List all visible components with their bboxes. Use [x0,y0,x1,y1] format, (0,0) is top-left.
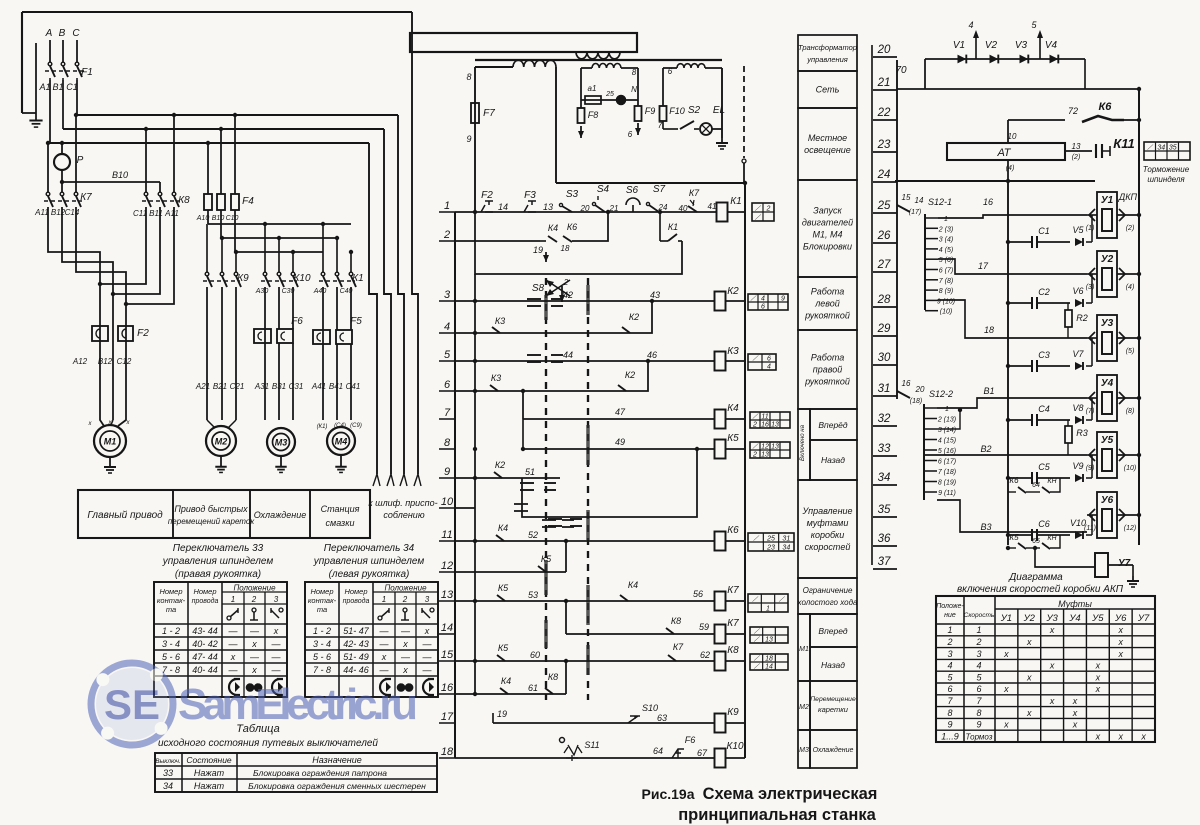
svg-text:1: 1 [947,625,952,635]
svg-text:13: 13 [1072,142,1081,151]
svg-text:(10): (10) [940,309,952,316]
svg-text:КН: КН [1047,535,1057,542]
svg-text:рукояткой: рукояткой [804,311,850,321]
svg-text:Главный привод: Главный привод [87,510,163,521]
svg-text:3 - 4: 3 - 4 [313,639,331,649]
svg-text:К1: К1 [730,196,741,207]
svg-text:В1: В1 [983,386,994,396]
svg-text:Выключ.: Выключ. [155,758,181,765]
svg-text:53: 53 [528,590,538,600]
svg-text:19: 19 [533,245,543,255]
svg-text:левой: левой [814,299,840,309]
svg-text:К11: К11 [1113,136,1135,151]
svg-text:F9: F9 [645,106,656,116]
svg-text:V8: V8 [1072,403,1083,413]
svg-text:С14: С14 [65,208,80,217]
svg-text:х: х [1003,649,1009,659]
svg-text:V6: V6 [1072,286,1083,296]
svg-text:В21: В21 [213,382,227,391]
svg-text:каретки: каретки [818,705,849,714]
svg-text:х: х [1026,637,1032,647]
svg-text:С3: С3 [1038,350,1050,360]
svg-text:К6: К6 [567,222,577,232]
svg-text:—: — [271,639,282,649]
svg-text:1: 1 [976,625,981,635]
svg-text:N: N [631,85,637,94]
svg-text:2: 2 [251,595,257,604]
svg-text:59: 59 [699,622,709,632]
svg-text:У1: У1 [1101,195,1114,206]
svg-text:25: 25 [877,200,891,212]
svg-text:S2: S2 [688,105,701,116]
svg-text:С1: С1 [66,82,78,92]
svg-text:Местное: Местное [808,133,847,143]
svg-text:К6: К6 [727,525,739,536]
svg-text:42- 43: 42- 43 [343,639,369,649]
svg-text:М1, М4: М1, М4 [812,230,842,240]
svg-text:V2: V2 [985,40,998,51]
svg-text:Положение: Положение [384,584,427,593]
svg-text:С4: С4 [1038,404,1050,414]
svg-text:(8): (8) [1126,408,1135,415]
svg-text:51- 49: 51- 49 [343,652,369,662]
svg-text:40- 42: 40- 42 [192,639,218,649]
svg-text:Охлаждение: Охлаждение [254,510,307,520]
svg-text:5: 5 [444,349,451,361]
svg-text:1: 1 [382,595,386,604]
svg-text:S6: S6 [626,185,639,196]
svg-text:—: — [422,652,433,662]
svg-text:Рис.19а: Рис.19а [642,786,695,802]
svg-text:40- 44: 40- 44 [192,665,218,675]
svg-text:7 (18): 7 (18) [938,469,956,476]
svg-text:42: 42 [563,290,573,300]
svg-text:К1: К1 [668,222,678,232]
svg-text:Положе-: Положе- [936,603,964,610]
svg-text:2: 2 [752,452,757,459]
svg-text:—: — [400,626,411,636]
svg-text:14: 14 [765,664,773,671]
svg-text:SamElectric.ru: SamElectric.ru [178,680,418,729]
svg-text:34: 34 [782,545,790,552]
svg-text:22: 22 [877,107,891,119]
svg-text:S11: S11 [584,740,599,750]
svg-text:F7: F7 [483,108,495,119]
svg-text:34: 34 [1157,145,1165,152]
svg-text:4: 4 [761,296,765,303]
svg-text:12: 12 [441,560,453,572]
svg-text:управления: управления [806,55,848,64]
svg-text:А41: А41 [311,382,326,391]
svg-text:7 (8): 7 (8) [939,278,953,285]
svg-text:EL: EL [713,105,725,116]
svg-text:х: х [251,665,257,675]
svg-text:7: 7 [658,121,663,130]
svg-text:х: х [402,665,408,675]
svg-text:х: х [251,639,257,649]
svg-text:У3: У3 [1045,613,1058,624]
svg-text:6: 6 [947,684,952,694]
svg-text:8: 8 [947,708,952,718]
svg-text:Блокировка ограждения патрона: Блокировка ограждения патрона [253,768,387,778]
svg-text:2 (3): 2 (3) [938,226,953,233]
svg-text:F5: F5 [350,316,362,327]
svg-text:11: 11 [761,414,768,421]
svg-text:36: 36 [878,533,891,545]
svg-text:Переключатель 33: Переключатель 33 [173,543,264,554]
svg-text:2: 2 [752,422,757,429]
svg-text:31: 31 [878,383,891,395]
svg-text:60: 60 [530,650,540,660]
svg-text:—: — [228,626,239,636]
svg-text:х: х [1026,672,1032,682]
svg-text:51: 51 [525,467,535,477]
svg-text:(левая рукоятка): (левая рукоятка) [329,569,410,580]
svg-text:6: 6 [628,130,633,139]
svg-text:(4): (4) [1006,165,1015,172]
svg-text:А12: А12 [72,357,88,366]
svg-text:5 (16): 5 (16) [938,448,956,455]
svg-text:3 - 4: 3 - 4 [162,639,180,649]
svg-text:С21: С21 [230,382,245,391]
svg-text:8: 8 [976,708,981,718]
svg-text:Номер: Номер [344,587,367,596]
svg-text:К8: К8 [178,195,190,206]
svg-text:К4: К4 [628,580,638,590]
svg-text:1: 1 [444,200,450,212]
svg-text:28: 28 [877,294,891,306]
svg-text:Работа: Работа [811,353,844,363]
svg-text:—: — [228,639,239,649]
svg-text:х: х [1049,696,1055,706]
svg-text:11: 11 [441,529,452,541]
svg-text:S7: S7 [653,184,666,195]
svg-text:62: 62 [700,650,710,660]
svg-text:25: 25 [605,91,614,98]
svg-text:У3: У3 [1101,318,1114,329]
svg-text:Вперед: Вперед [818,626,847,636]
svg-text:43: 43 [650,290,660,300]
svg-text:освещение: освещение [804,145,851,155]
svg-text:Блокировки: Блокировки [803,242,852,252]
svg-text:х: х [1003,720,1009,730]
svg-text:25: 25 [766,536,775,543]
svg-text:13: 13 [771,444,779,451]
svg-text:3: 3 [976,649,981,659]
svg-text:67: 67 [697,748,708,758]
svg-text:8: 8 [632,68,637,77]
svg-text:7 - 8: 7 - 8 [313,665,331,675]
svg-text:М2: М2 [799,704,809,711]
svg-text:72: 72 [1068,106,1078,116]
svg-text:40: 40 [679,204,688,213]
svg-text:30: 30 [878,352,891,364]
svg-text:9: 9 [444,466,450,478]
svg-text:S12-2: S12-2 [929,389,953,399]
svg-text:35: 35 [1169,145,1177,152]
svg-text:9: 9 [976,720,981,730]
svg-text:34: 34 [163,781,173,791]
svg-text:контак-: контак- [308,596,337,605]
svg-text:исходного состояния путевых вы: исходного состояния путевых выключателей [158,738,378,749]
svg-text:В10: В10 [112,170,128,180]
svg-text:6: 6 [761,304,765,311]
svg-text:—: — [379,665,390,675]
svg-text:А11: А11 [34,208,49,217]
svg-text:Назначение: Назначение [312,755,361,765]
svg-text:(К1): (К1) [317,424,328,430]
svg-text:Диаграмма: Диаграмма [1008,572,1063,583]
svg-text:—: — [271,665,282,675]
svg-text:3: 3 [425,595,430,604]
svg-text:У2: У2 [1023,613,1036,624]
svg-text:К8: К8 [548,672,558,682]
svg-text:У1: У1 [1000,613,1012,624]
svg-text:F6: F6 [685,735,696,745]
svg-text:Сеть: Сеть [816,85,840,95]
svg-text:Номер: Номер [310,587,333,596]
svg-text:65: 65 [1032,538,1040,545]
svg-text:3 (14): 3 (14) [938,427,956,434]
svg-text:управления шпинделем: управления шпинделем [162,556,274,567]
svg-text:F2: F2 [481,190,493,201]
svg-text:(9): (9) [1086,465,1095,472]
svg-text:К5: К5 [541,554,552,564]
svg-text:43- 44: 43- 44 [192,626,218,636]
svg-text:Блокировка ограждения сменных: Блокировка ограждения сменных шестерен [248,781,426,791]
svg-text:А40: А40 [313,288,327,295]
svg-text:х: х [402,639,408,649]
svg-text:контак-: контак- [157,596,186,605]
svg-text:20: 20 [877,44,891,56]
svg-text:3: 3 [444,289,451,301]
svg-text:К4: К4 [727,403,739,414]
svg-text:х: х [1072,708,1078,718]
svg-text:Схема электрическая: Схема электрическая [703,785,878,803]
svg-text:В: В [59,28,66,39]
svg-text:(7): (7) [1086,408,1095,415]
svg-text:Трансформатор: Трансформатор [798,43,857,52]
svg-text:Охлаждение: Охлаждение [813,746,854,754]
svg-text:принципиальная станка: принципиальная станка [678,806,876,824]
svg-text:20: 20 [915,385,925,394]
svg-text:4: 4 [968,20,973,30]
svg-text:S3: S3 [566,189,579,200]
svg-text:47: 47 [615,407,626,417]
svg-text:Тормоз: Тормоз [966,732,993,741]
svg-text:21: 21 [877,77,891,89]
svg-text:34: 34 [878,472,891,484]
svg-text:V4: V4 [1045,40,1058,51]
svg-text:8: 8 [466,72,471,82]
svg-text:29: 29 [877,323,891,335]
svg-text:Вперёд: Вперёд [818,420,848,430]
svg-text:16: 16 [902,379,911,388]
svg-text:12: 12 [761,444,769,451]
svg-text:К2: К2 [727,286,739,297]
svg-text:провода: провода [192,597,219,605]
svg-text:К7: К7 [673,642,684,652]
svg-text:включения скоростей коробки АК: включения скоростей коробки АКП [957,583,1124,595]
svg-text:—: — [249,626,260,636]
svg-text:56: 56 [693,589,703,599]
svg-text:В10: В10 [212,215,225,222]
svg-text:Перемещение: Перемещение [810,696,856,703]
svg-text:перемещений кареток: перемещений кареток [168,517,255,526]
svg-text:Р: Р [77,155,84,166]
svg-text:2: 2 [946,637,952,647]
svg-text:49: 49 [615,437,625,447]
svg-text:КН: КН [1047,478,1057,485]
svg-text:С6: С6 [1038,519,1050,529]
svg-text:16: 16 [761,422,769,429]
svg-text:а1: а1 [588,84,597,93]
svg-text:13: 13 [543,202,553,212]
svg-text:51- 47: 51- 47 [343,626,370,636]
svg-text:S10: S10 [642,703,658,713]
svg-text:14: 14 [915,196,924,205]
svg-text:41: 41 [708,202,717,211]
svg-text:ДКП: ДКП [1118,192,1138,202]
svg-text:Назад: Назад [821,660,845,670]
svg-text:К8: К8 [671,616,681,626]
svg-text:К5: К5 [498,643,509,653]
svg-text:4: 4 [444,321,450,333]
svg-text:х: х [381,652,387,662]
svg-text:35: 35 [878,504,891,516]
svg-text:Привод быстрых: Привод быстрых [174,504,248,514]
svg-text:S12-1: S12-1 [928,197,952,207]
svg-text:33: 33 [163,768,173,778]
svg-text:М4: М4 [335,437,348,447]
svg-text:Торможение: Торможение [1143,165,1190,174]
svg-text:(18): (18) [910,398,922,405]
svg-text:управления шпинделем: управления шпинделем [313,556,425,567]
svg-text:К5: К5 [498,583,509,593]
svg-text:27: 27 [877,259,891,271]
svg-text:13: 13 [441,589,454,601]
svg-text:В31: В31 [272,382,286,391]
svg-text:10: 10 [1008,132,1017,141]
svg-text:У7: У7 [1118,558,1131,569]
svg-text:23: 23 [877,139,891,151]
svg-text:К7: К7 [727,618,739,629]
svg-text:холостого хода: холостого хода [797,598,858,607]
svg-text:19: 19 [497,709,507,719]
svg-text:4: 4 [767,364,771,371]
svg-text:скоростей: скоростей [805,542,851,552]
svg-text:47- 44: 47- 44 [192,652,218,662]
svg-text:37: 37 [878,556,891,568]
svg-text:18: 18 [765,656,773,663]
svg-text:провода: провода [343,597,370,605]
svg-text:44: 44 [563,350,573,360]
svg-text:С1: С1 [1038,226,1050,236]
svg-text:двигателей: двигателей [802,218,853,228]
svg-text:18: 18 [984,325,994,335]
svg-text:Скорость: Скорость [964,612,995,619]
svg-text:Номер: Номер [193,587,216,596]
svg-text:46: 46 [647,350,657,360]
svg-text:4: 4 [976,661,981,671]
svg-text:(4): (4) [1126,284,1135,291]
svg-text:К7: К7 [689,188,700,198]
svg-text:х: х [424,626,430,636]
svg-text:С11: С11 [133,209,147,218]
svg-text:3: 3 [947,649,952,659]
svg-text:Переключатель 34: Переключатель 34 [324,543,415,554]
svg-text:К6: К6 [1009,476,1019,485]
svg-text:1: 1 [766,606,770,613]
svg-text:1 - 2: 1 - 2 [313,626,331,636]
svg-text:М1: М1 [799,646,809,653]
svg-text:М3: М3 [275,438,288,448]
svg-text:64: 64 [1032,482,1040,489]
svg-text:х: х [1117,625,1123,635]
svg-text:5 - 6: 5 - 6 [313,652,331,662]
svg-text:18: 18 [441,746,454,758]
svg-text:2 (13): 2 (13) [937,417,956,424]
svg-text:К3: К3 [495,316,505,326]
svg-text:10: 10 [441,496,454,508]
svg-text:14: 14 [498,202,508,212]
svg-text:х: х [1049,661,1055,671]
svg-text:6 (7): 6 (7) [939,268,953,275]
svg-text:К2: К2 [625,370,635,380]
svg-text:V5: V5 [1072,225,1084,235]
svg-text:В2: В2 [980,444,991,454]
svg-text:х: х [1072,720,1078,730]
svg-text:5 - 6: 5 - 6 [162,652,180,662]
svg-text:Назад: Назад [821,455,845,465]
svg-text:У5: У5 [1101,435,1114,446]
svg-text:7: 7 [444,407,451,419]
svg-text:44- 46: 44- 46 [343,665,369,675]
svg-text:М3: М3 [799,747,809,754]
svg-text:С10: С10 [226,215,239,222]
svg-text:С: С [72,28,80,39]
svg-text:32: 32 [878,413,891,425]
svg-text:—: — [271,652,282,662]
svg-text:Станция: Станция [321,504,360,514]
svg-text:А1: А1 [38,82,50,92]
svg-text:4: 4 [947,661,952,671]
svg-text:Включено на: Включено на [800,424,806,461]
svg-text:А30: А30 [255,288,269,295]
svg-text:х: х [1026,708,1032,718]
svg-text:та: та [166,605,176,614]
svg-text:С5: С5 [1038,462,1050,472]
svg-text:(10): (10) [1124,465,1136,472]
svg-text:К2: К2 [495,460,505,470]
svg-text:А21: А21 [195,382,210,391]
svg-text:(17): (17) [909,209,921,216]
svg-text:У6: У6 [1101,495,1114,506]
svg-text:М2: М2 [215,437,228,447]
svg-text:А31: А31 [254,382,269,391]
svg-text:к шлиф. приспо-: к шлиф. приспо- [368,498,437,508]
svg-text:63: 63 [657,713,667,723]
svg-text:В3: В3 [980,522,991,532]
svg-text:31: 31 [782,536,790,543]
svg-text:К4: К4 [501,676,511,686]
svg-text:х: х [1095,731,1101,741]
svg-text:V3: V3 [1015,40,1028,51]
svg-text:15: 15 [902,193,911,202]
svg-text:F1: F1 [81,67,93,78]
svg-text:У7: У7 [1137,613,1150,624]
svg-text:16: 16 [983,197,993,207]
